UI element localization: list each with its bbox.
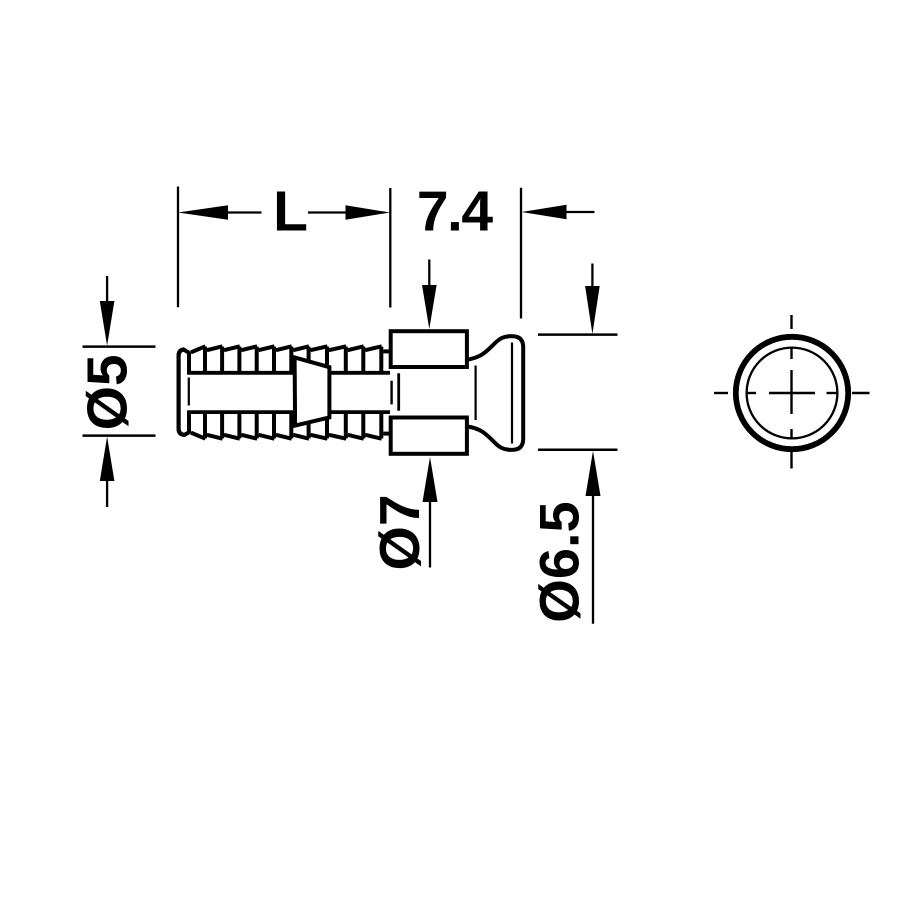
svg-text:7.4: 7.4: [417, 180, 494, 244]
svg-text:L: L: [273, 180, 308, 244]
svg-text:Ø7: Ø7: [368, 494, 432, 570]
svg-text:Ø5: Ø5: [76, 354, 140, 430]
svg-text:Ø6.5: Ø6.5: [528, 501, 591, 622]
